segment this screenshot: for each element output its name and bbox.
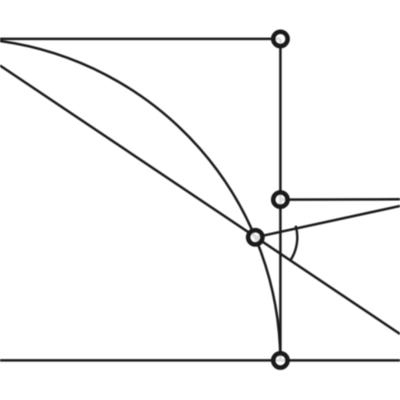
node E (273, 192, 287, 206)
node P (248, 230, 262, 244)
angle marker at P (290, 226, 297, 261)
wire bottom line (0, 359, 400, 362)
node B (273, 32, 287, 46)
wire diagonal through P (0, 66, 400, 335)
wire right side BC vertical (279, 39, 282, 361)
wire ray from E (280, 198, 400, 201)
node C (273, 353, 287, 367)
quarter-circle arc (0, 41, 280, 360)
wire ray from P (255, 206, 400, 237)
wire top side AB (0, 38, 280, 41)
